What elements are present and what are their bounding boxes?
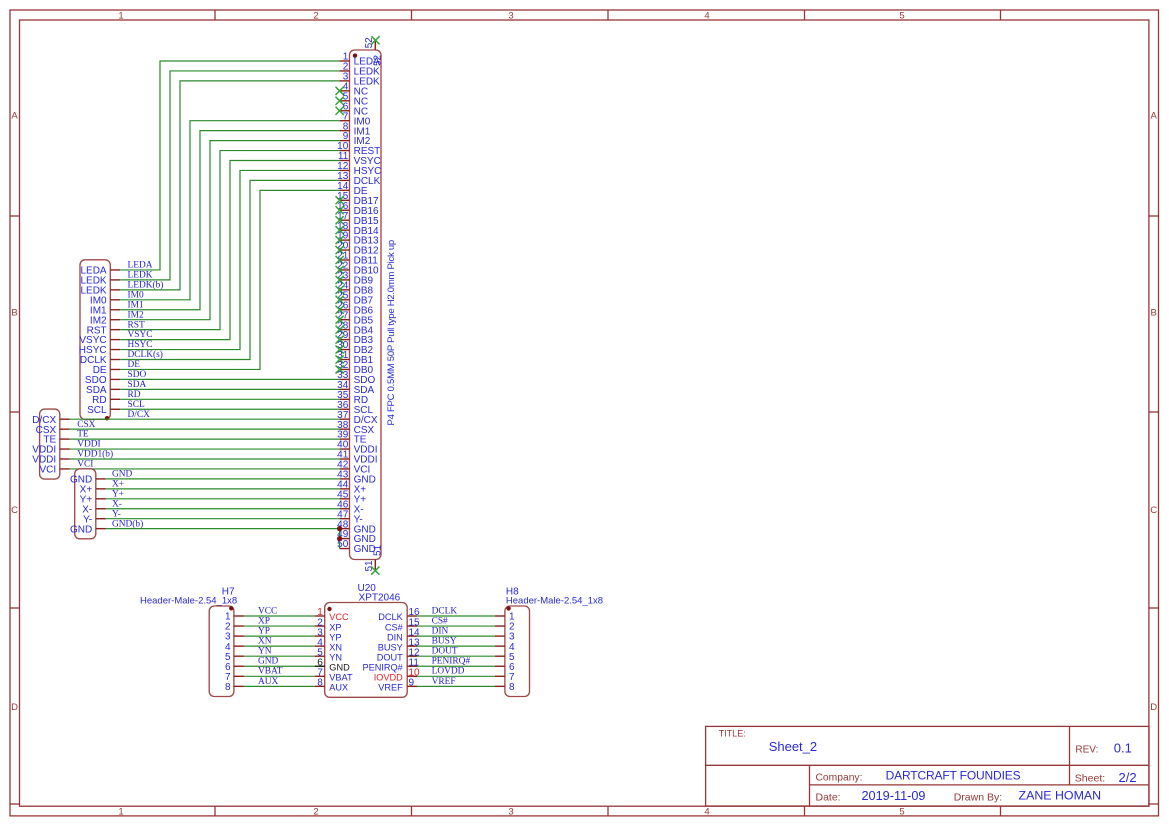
P4 pin 13 DCLK [337,171,380,187]
svg-text:8: 8 [317,678,323,689]
P4 pin 51 (mount, no-connect) [364,544,384,574]
P4 pin 28 DB4 [336,320,374,336]
svg-text:BUSY: BUSY [432,637,457,647]
header H7 [140,587,237,697]
svg-text:IOVDD: IOVDD [374,673,403,683]
P4 pin 7 IM0 [340,111,371,127]
H8 anchor dot [506,606,510,610]
P4 pin 29 DB3 [336,330,374,346]
svg-text:YP: YP [258,627,270,637]
U20 pin 2 XP [315,617,342,632]
svg-text:5: 5 [899,806,904,817]
svg-text:GND: GND [258,657,279,667]
H8 pin 5 [495,652,515,663]
wire net LEDK(b) : block1 pin 3 to P4 pin 3 [120,81,339,290]
H8 pin 1 [495,612,515,623]
wire net YP : H7 pin 3 to U20 pin 3 [244,635,315,637]
P4 pin 22 DB10 [336,261,380,277]
block1 pin 4 IM0 [90,295,120,306]
wire net LOVDD : U20 pin 10 to H8 pin 7 [417,675,495,677]
svg-text:GND: GND [112,470,133,480]
H8 pin 8 [495,682,515,693]
svg-text:1: 1 [118,806,123,817]
P4 pin 35 RD [337,390,368,406]
svg-text:TE: TE [77,430,89,440]
H7 pin 4 [225,642,244,653]
svg-text:A: A [1151,111,1158,122]
svg-text:Drawn By:: Drawn By: [954,791,1002,803]
U20 pin 3 YP [315,627,342,642]
svg-text:3: 3 [508,10,513,21]
P4 pin 52 (mount, no-connect) [364,36,384,66]
svg-text:Sheet_2: Sheet_2 [769,739,817,754]
svg-text:51: 51 [372,544,383,556]
P4 pin 37 D/CX [337,410,378,426]
P4 pin 8 IM1 [340,121,371,137]
P4 pin 31 DB1 [336,350,374,366]
block1 pin 11 DE [93,365,121,376]
svg-text:Sheet:: Sheet: [1075,773,1105,785]
svg-text:SDA: SDA [128,380,147,390]
P4 pin 9 IM2 [340,131,371,147]
svg-text:VREF: VREF [378,683,403,693]
P4 pin 25 DB7 [336,290,374,306]
U20 pin 1 VCC [315,607,349,622]
P4 pin 21 DB11 [336,251,379,267]
svg-text:VCI: VCI [77,460,93,470]
wire net IM2 : block1 pin 6 to P4 pin 9 [120,141,339,320]
svg-text:4: 4 [704,806,709,817]
H7 pin 7 [225,672,244,683]
svg-text:VDD1(b): VDD1(b) [77,449,113,460]
H7 pin 2 [225,622,244,633]
svg-text:REV:: REV: [1075,745,1098,756]
block1 pin 13 SDA [86,385,120,396]
svg-text:ZANE HOMAN: ZANE HOMAN [1019,789,1102,803]
svg-text:B: B [1151,308,1157,319]
block3 pin 1 GND [70,475,106,486]
P4 pin 47 Y- [337,509,363,525]
P4 pin 15 DB17 [336,191,380,207]
wire net AUX : H7 pin 8 to U20 pin 8 [244,685,315,687]
wire net DCLK : U20 pin 16 to H8 pin 1 [417,615,495,617]
svg-text:X+: X+ [112,479,124,489]
P4 pin 44 X+ [337,479,366,495]
block2 pin 2 CSX [36,425,70,436]
P4 pin 14 DE [337,181,368,197]
P4 pin 20 DB12 [336,241,380,257]
P4 pin 46 X- [337,499,363,515]
P4 pin 39 TE [337,430,367,446]
svg-text:VCC: VCC [329,612,349,622]
title block [706,726,1149,806]
svg-text:51: 51 [364,560,375,572]
wire net HSYC : block1 pin 9 to P4 pin 12 [120,170,339,349]
svg-text:IM1: IM1 [128,300,144,310]
svg-text:CSX: CSX [77,420,95,430]
U20 pin 10 IOVDD [374,668,420,683]
wire net X- : block3 pin 4 to P4 pin 46 [106,508,340,510]
block2 pin 6 VCI [40,465,70,476]
wire net IM1 : block1 pin 5 to P4 pin 8 [120,131,339,310]
P4 pin 23 DB9 [336,271,374,287]
svg-text:DCLK: DCLK [378,612,403,622]
svg-text:B: B [11,308,17,319]
svg-text:CS#: CS# [432,616,448,626]
wire net VDDI : block2 pin 4 to P4 pin 40 [70,448,340,450]
block3 pin 3 Y+ [80,494,106,505]
P4 pin 26 DB6 [336,300,374,316]
svg-text:2/2: 2/2 [1119,770,1137,785]
P4 pin 41 VDDI [337,450,377,466]
P4 pin 18 DB14 [336,221,380,237]
svg-text:3: 3 [508,806,513,817]
P4 pin 30 DB2 [336,340,374,356]
svg-text:LEDK(b): LEDK(b) [128,279,164,290]
wire GND bus P4 pins 48-50 [339,529,341,549]
H7 pin 3 [225,632,244,643]
block1 pin 14 RD [92,395,120,406]
svg-text:SCL: SCL [87,405,107,416]
block3 pin 4 X- [82,504,106,515]
svg-text:HSYC: HSYC [128,340,153,350]
P4 pin 1 LEDA [340,52,380,68]
svg-text:VDDI: VDDI [77,440,100,450]
wire net CSX : block2 pin 2 to P4 pin 38 [70,428,340,430]
svg-text:DARTCRAFT FOUNDIES: DARTCRAFT FOUNDIES [886,768,1021,782]
H7 anchor dot [229,606,233,610]
P4 pin 2 LEDK [340,62,380,78]
U20 pin 7 VBAT [315,668,353,683]
svg-text:XN: XN [258,637,272,647]
junction dot pin48 [337,526,342,531]
U20 pin 9 VREF [378,678,417,693]
wire net VREF : U20 pin 9 to H8 pin 8 [417,685,495,687]
P4 pin 11 VSYC [338,151,381,167]
U20 pin 5 YN [315,647,342,662]
wire net VCC : H7 pin 1 to U20 pin 1 [244,615,315,617]
U20 pin 15 CS# [385,617,420,632]
wire net VBAT : H7 pin 7 to U20 pin 7 [244,675,315,677]
P4 pin 33 SDO [337,370,375,386]
P4 pin 34 SDA [337,380,374,396]
U20 pin 13 BUSY [378,637,420,652]
svg-text:D: D [11,702,18,713]
P4 pin 43 GND [337,470,376,486]
svg-text:BUSY: BUSY [378,642,403,652]
wire net D/CX : block2 pin 1 to P4 pin 37 [70,418,340,420]
P4 pin 40 VDDI [337,440,377,456]
wire net VSYC : block1 pin 8 to P4 pin 11 [120,161,339,340]
svg-text:XP: XP [329,622,341,632]
H8 pin 4 [495,642,515,653]
U20 pin 12 DOUT [377,647,420,662]
wire net YN : H7 pin 5 to U20 pin 5 [244,655,315,657]
svg-text:DIN: DIN [432,627,449,637]
svg-text:DOUT: DOUT [432,647,458,657]
wire net PENIRQ# : U20 pin 11 to H8 pin 6 [417,665,495,667]
block2 pin 4 VDDI [32,445,70,456]
H8 pin 6 [495,662,515,673]
svg-text:5: 5 [899,10,904,21]
svg-text:LOVDD: LOVDD [432,667,465,677]
port block 1 (display signals) [80,260,110,420]
block1 pin 8 VSYC [79,335,120,346]
wire net GND : block3 pin 1 to P4 pin 43 [106,478,340,480]
block1 pin 7 RST [87,325,121,336]
P4 pin 42 VCI [337,460,370,476]
svg-text:Header-Male-2.54_1x8: Header-Male-2.54_1x8 [140,595,237,606]
svg-text:1: 1 [118,10,123,21]
svg-text:DOUT: DOUT [377,652,403,662]
svg-text:GND(b): GND(b) [112,518,143,529]
P4 pin 12 HSYC [337,161,381,177]
svg-text:2: 2 [313,806,318,817]
block2 pin 1 D/CX [32,415,70,426]
svg-text:PENIRQ#: PENIRQ# [362,662,403,672]
block3 pin 2 X+ [80,484,106,495]
svg-text:CS#: CS# [385,622,404,632]
H7 pin 8 [225,682,244,693]
P4 pin 5 NC [336,91,369,107]
P4 pin 48 GND [337,519,376,535]
svg-text:XP: XP [258,616,270,626]
H8 pin 2 [495,622,515,633]
U20 pin 6 GND [315,657,350,672]
wire net DIN : U20 pin 14 to H8 pin 3 [417,635,495,637]
wire net CS# : U20 pin 15 to H8 pin 2 [417,625,495,627]
svg-text:SDO: SDO [128,370,147,380]
connector P4 FPC 50P [350,50,382,560]
P4 pin 19 DB13 [336,231,380,247]
svg-text:P4 FPC 0.5MM 50P Pull type H: P4 FPC 0.5MM 50P Pull type H2.0mm Pick u… [386,240,397,425]
wire net BUSY : U20 pin 13 to H8 pin 4 [417,645,495,647]
wire net GND : H7 pin 6 to U20 pin 6 [244,665,315,667]
wire net XP : H7 pin 2 to U20 pin 2 [244,625,315,627]
P4 pin 27 DB5 [336,310,374,326]
svg-text:VCC: VCC [258,606,277,616]
svg-text:GND: GND [329,662,350,672]
wire net XN : H7 pin 4 to U20 pin 4 [244,645,315,647]
block1 anchor dot [105,416,109,420]
P4 pin 45 Y+ [337,489,366,505]
wire net DCLK(s) : block1 pin 10 to P4 pin 13 [120,180,339,359]
svg-text:PENIRQ#: PENIRQ# [432,657,471,667]
P4 pin 38 CSX [337,420,374,436]
svg-text:LEDA: LEDA [128,261,153,271]
wire net GND(b) : block3 pin 6 to P4 pin 48 [106,528,340,530]
wire net TE : block2 pin 3 to P4 pin 39 [70,438,340,440]
wire net IM0 : block1 pin 4 to P4 pin 7 [120,121,339,300]
svg-text:RST: RST [128,320,145,330]
wire net SDO : block1 pin 12 to P4 pin 33 [120,378,339,380]
block1 pin 5 IM1 [90,305,120,316]
svg-text:VBAT: VBAT [258,667,283,677]
block1 pin 15 SCL [87,405,120,416]
svg-text:AUX: AUX [329,683,348,693]
P4 pin 50 GND [337,539,376,555]
U20 pin 14 DIN [387,627,420,642]
block1 pin 12 SDO [85,375,120,386]
svg-text:DCLK: DCLK [432,606,458,616]
block1 pin 2 LEDK [80,276,120,287]
P4 pin 3 LEDK [340,72,380,88]
wire net Y- : block3 pin 5 to P4 pin 47 [106,518,340,520]
block1 pin 6 IM2 [90,315,120,326]
svg-text:2: 2 [313,10,318,21]
svg-text:0.1: 0.1 [1114,741,1132,756]
U20 anchor dot [327,607,331,611]
H7 pin 1 [225,612,244,623]
P4 pin 10 REST [337,141,380,157]
svg-text:VCI: VCI [40,465,57,476]
svg-text:Header-Male-2.54_1x8: Header-Male-2.54_1x8 [506,595,603,606]
svg-text:AUX: AUX [258,677,279,687]
P4 pin 6 NC [336,101,369,117]
header H8 [505,587,603,697]
svg-text:4: 4 [704,10,709,21]
svg-text:C: C [1150,505,1157,516]
P4 pin 17 DB15 [336,211,380,227]
svg-text:IM0: IM0 [128,290,144,300]
svg-text:Date:: Date: [816,792,841,804]
svg-text:YP: YP [329,632,341,642]
wire net LEDA : block1 pin 1 to P4 pin 1 [120,61,339,270]
block1 pin 10 DCLK [80,355,120,366]
wire net SCL : block1 pin 15 to P4 pin 36 [120,408,339,410]
wire net SDA : block1 pin 13 to P4 pin 34 [120,388,339,390]
P4 anchor dot [353,53,357,57]
block2 pin 5 VDDI [32,455,70,466]
junction dot pin49 [337,536,342,541]
P4 pin 16 DB16 [336,201,380,217]
H8 pin 3 [495,632,515,643]
block1 pin 3 LEDK [80,285,120,296]
svg-text:8: 8 [225,682,231,693]
block1 pin 9 HSYC [79,345,120,356]
svg-text:A: A [11,111,18,122]
P4 pin 32 DB0 [336,360,374,376]
svg-text:DE: DE [128,360,141,370]
H8 pin 7 [495,672,515,683]
svg-text:2019-11-09: 2019-11-09 [862,789,926,803]
H7 pin 6 [225,662,244,673]
port block 2 (control signals) [40,409,60,479]
svg-text:52: 52 [372,54,383,66]
svg-text:Company:: Company: [816,772,863,783]
svg-text:RD: RD [128,390,141,400]
block3 pin 6 GND [70,524,106,535]
svg-text:C: C [11,505,18,516]
wire net VDD1(b) : block2 pin 5 to P4 pin 41 [70,458,340,460]
svg-text:D: D [1150,702,1157,713]
svg-text:SCL: SCL [128,400,145,410]
svg-text:D/CX: D/CX [128,410,151,420]
U20 pin 16 DCLK [378,607,420,622]
svg-text:VSYC: VSYC [128,330,153,340]
svg-text:YN: YN [258,647,272,657]
wire net LEDK : block1 pin 2 to P4 pin 2 [120,71,339,280]
svg-text:9: 9 [409,678,415,689]
svg-text:8: 8 [509,682,515,693]
U20 pin 4 XN [315,637,342,652]
svg-text:Y-: Y- [112,509,121,519]
svg-text:X-: X- [112,499,122,509]
P4 pin 36 SCL [337,400,373,416]
port block 3 (touch panel) [75,469,96,539]
wire net RD : block1 pin 14 to P4 pin 35 [120,398,339,400]
svg-text:XN: XN [329,642,342,652]
svg-text:IM2: IM2 [128,310,144,320]
svg-text:TITLE:: TITLE: [719,729,746,739]
wire net DE : block1 pin 11 to P4 pin 14 [120,190,339,369]
svg-text:DCLK(s): DCLK(s) [128,349,163,360]
svg-text:LEDK: LEDK [128,271,153,281]
wire net X+ : block3 pin 2 to P4 pin 44 [106,488,340,490]
svg-text:GND: GND [70,524,92,535]
svg-text:YN: YN [329,652,342,662]
P4 pin 24 DB8 [336,280,374,296]
block2 pin 3 TE [43,435,69,446]
block1 pin 1 LEDA [80,266,120,277]
svg-text:DIN: DIN [387,632,403,642]
wire net DOUT : U20 pin 12 to H8 pin 5 [417,655,495,657]
P4 pin 49 GND [337,529,376,545]
H7 pin 5 [225,652,244,663]
IC U20 XPT2046 [325,583,408,698]
svg-text:VREF: VREF [432,677,456,687]
svg-text:VBAT: VBAT [329,673,353,683]
block3 pin 5 Y- [83,514,106,525]
wire net Y+ : block3 pin 3 to P4 pin 45 [106,498,340,500]
U20 pin 8 AUX [315,678,349,693]
U20 pin 11 PENIRQ# [362,657,419,672]
wire net RST : block1 pin 7 to P4 pin 10 [120,151,339,330]
P4 pin 4 NC [336,81,369,97]
svg-text:Y+: Y+ [112,489,124,499]
wire net VCI : block2 pin 6 to P4 pin 42 [70,468,340,470]
